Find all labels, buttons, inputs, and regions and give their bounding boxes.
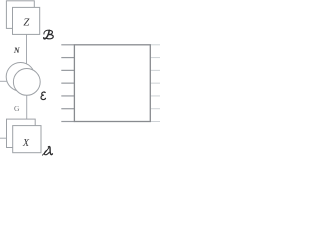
svg-text:G: G xyxy=(14,104,20,113)
svg-text:N: N xyxy=(13,46,21,55)
svg-text:Z: Z xyxy=(23,18,29,29)
svg-text:X: X xyxy=(22,137,30,149)
